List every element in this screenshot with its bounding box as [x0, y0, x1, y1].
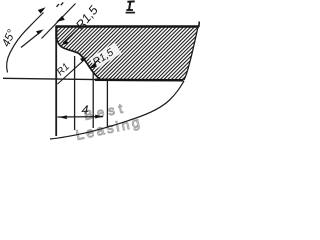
watermark word Best [83, 100, 128, 123]
tiny tick 2 [61, 2, 63, 5]
angle dimension arc 45 [7, 13, 44, 73]
middle leader arrowhead [36, 29, 44, 34]
dim arrow right [95, 115, 102, 119]
part top edge [56, 25, 199, 27]
view label I stem [129, 1, 130, 10]
top edge end stub [198, 22, 201, 28]
view label I bottom serif [126, 9, 133, 11]
dim arrow left [59, 115, 67, 119]
text 45deg [0, 28, 18, 49]
view label underline [126, 12, 135, 14]
background paper [0, 0, 204, 148]
middle leader line [21, 32, 41, 48]
watermark word Leasing [74, 113, 143, 143]
lower R1.5 arrowhead [89, 64, 97, 69]
detail boundary right freehand edge [184, 27, 198, 80]
top R1.5 arrowhead [61, 40, 69, 45]
chamfer line arrowhead [56, 16, 65, 22]
extension line x93 [92, 73, 94, 128]
extension line left x56 [55, 39, 57, 136]
top R1.5 text [73, 3, 101, 32]
lower R1.5 leader [90, 59, 100, 69]
R1 arrowhead [80, 57, 88, 62]
dimension line 4 [58, 116, 104, 118]
top R1.5 leader [63, 28, 80, 44]
lower R1.5 text [91, 46, 116, 68]
extension line x74.5 [74, 56, 76, 130]
part cross-section hatched body [56, 26, 199, 80]
chamfer 45 line [42, 4, 76, 39]
horizontal extension line (angle ray) [3, 78, 96, 79]
part bottom edge thick [95, 79, 184, 82]
view label I top serif [127, 0, 134, 2]
part left wall [55, 26, 57, 40]
R1 text [55, 61, 72, 78]
extension line x107 [106, 80, 108, 127]
groove profile curve [56, 37, 100, 80]
tiny tick 1 [57, 4, 60, 7]
arc end arrowhead [38, 7, 46, 13]
R1 leader [58, 59, 86, 84]
lower R1.5 halo [89, 43, 121, 69]
detail boundary big sweep curve [50, 81, 184, 139]
svg-text:4: 4 [82, 103, 89, 117]
